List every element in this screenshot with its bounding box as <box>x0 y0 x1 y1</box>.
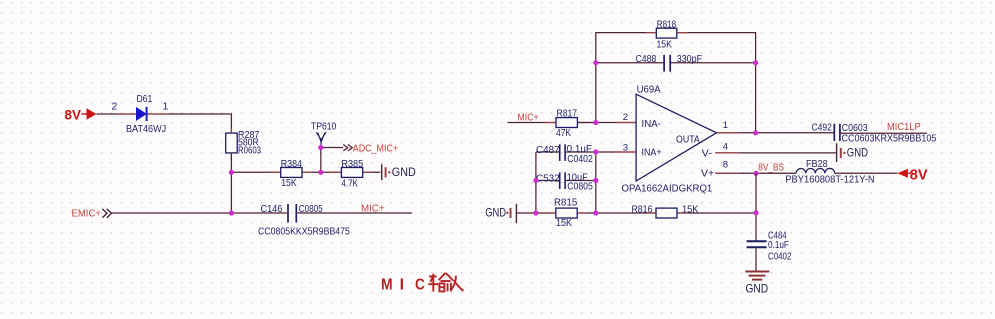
svg-text:ADC_MIC+: ADC_MIC+ <box>353 142 398 154</box>
svg-text:GND: GND <box>847 146 868 160</box>
resistor R818 <box>656 28 677 38</box>
capacitor C492 <box>834 124 840 141</box>
wire right vertical (pin3 to R815 row) <box>595 152 597 213</box>
svg-text:D61: D61 <box>137 93 153 105</box>
svg-text:GND: GND <box>392 165 416 179</box>
wire C532 row <box>536 180 596 182</box>
junction dot (756,133) <box>753 130 758 135</box>
wire left vertical (C487/C532/R815) <box>535 152 537 213</box>
earth ground <box>745 272 769 280</box>
capacitor C532 <box>560 172 565 189</box>
svg-text:MIC+: MIC+ <box>518 111 539 123</box>
junction dot (596,63) <box>593 60 598 65</box>
wire MIC+ to R817 <box>508 122 557 124</box>
wire pin4 row <box>715 152 836 154</box>
wire 8V net <box>97 114 232 133</box>
svg-text:C: C <box>415 276 425 293</box>
svg-text:INA-: INA- <box>642 118 662 130</box>
resistor R384 <box>281 168 302 178</box>
wire pin3 row <box>566 151 636 153</box>
svg-text:INA+: INA+ <box>642 147 662 159</box>
junction dot (756,213) <box>753 210 758 215</box>
svg-text:R384: R384 <box>281 158 302 170</box>
svg-text:U69A: U69A <box>637 84 661 96</box>
wire V+ vertical to C484 <box>755 173 757 240</box>
junction dot (536,213) <box>533 210 538 215</box>
svg-text:R385: R385 <box>341 158 363 170</box>
ferrite bead FB28 <box>796 168 835 173</box>
svg-text:MIC+: MIC+ <box>361 202 385 214</box>
svg-text:15K: 15K <box>657 39 672 51</box>
svg-text:I: I <box>400 276 404 293</box>
junction dot (596,213) <box>593 210 598 215</box>
svg-text:BAT46WJ: BAT46WJ <box>126 123 166 135</box>
svg-text:8V: 8V <box>910 167 928 183</box>
svg-text:C146: C146 <box>261 203 283 215</box>
junction dot (756,173) <box>753 171 758 176</box>
hanzi shu (simplified strokes) <box>428 273 453 292</box>
svg-text:47K: 47K <box>556 127 571 139</box>
wire TP branch <box>321 148 343 173</box>
svg-text:1: 1 <box>723 120 728 131</box>
port chevrons ADC_MIC+ <box>343 145 352 151</box>
wire EMIC row <box>112 212 412 214</box>
resistor R816 pins <box>646 212 688 214</box>
test point TP610 <box>316 132 326 147</box>
svg-text:C0805: C0805 <box>299 203 323 215</box>
svg-text:C488: C488 <box>636 53 657 65</box>
capacitor C484 <box>747 241 767 247</box>
capacitor C487 <box>560 144 565 161</box>
title MIC input <box>381 273 463 293</box>
op-amp U69A <box>636 94 716 181</box>
resistor R816 <box>656 208 677 218</box>
resistor R385 <box>341 168 362 178</box>
port EMIC+ <box>72 208 112 220</box>
diode D61 pin stubs <box>116 113 168 115</box>
svg-text:R0603: R0603 <box>238 144 261 156</box>
svg-text:FB28: FB28 <box>806 158 828 170</box>
svg-text:GND: GND <box>485 206 506 220</box>
svg-text:C532: C532 <box>536 172 560 184</box>
svg-text:CC0603KRX5R9BB105: CC0603KRX5R9BB105 <box>842 132 937 144</box>
wire R287 to EMIC row <box>230 153 232 213</box>
svg-text:15K: 15K <box>281 177 296 189</box>
wire pin1 output row <box>717 132 928 134</box>
svg-text:OPA1662AIDGKRQ1: OPA1662AIDGKRQ1 <box>622 182 713 194</box>
svg-text:M: M <box>381 276 393 293</box>
resistor R384 pins <box>270 171 312 173</box>
svg-text:C487: C487 <box>536 144 560 156</box>
svg-text:OUTA: OUTA <box>676 133 700 145</box>
wire feedback left vertical <box>596 33 756 133</box>
svg-text:15K: 15K <box>556 217 572 229</box>
svg-text:V+: V+ <box>701 167 714 179</box>
hanzi ru <box>450 276 463 292</box>
svg-text:R817: R817 <box>557 108 578 120</box>
svg-text:R815: R815 <box>554 196 577 208</box>
svg-text:4.7K: 4.7K <box>341 178 358 190</box>
power bar GND (left of R815) <box>485 204 516 223</box>
resistor R287 <box>226 133 238 153</box>
junction dot (596,152) <box>593 149 598 154</box>
wire C484 to ground <box>755 247 757 271</box>
wire R384 row <box>231 171 380 173</box>
svg-text:C492: C492 <box>812 121 832 133</box>
svg-text:R816: R816 <box>632 203 653 215</box>
wire R817 to pin2 <box>577 122 636 124</box>
capacitor C488 <box>664 55 670 72</box>
junction dot (231,213) <box>229 210 234 215</box>
junction dot (596,122) <box>593 120 598 125</box>
junction dot (321,147) <box>318 145 323 150</box>
svg-text:C0805: C0805 <box>567 181 593 193</box>
svg-text:PBY160808T-121Y-N: PBY160808T-121Y-N <box>785 173 874 185</box>
svg-text:CC0805KKX5R9BB475: CC0805KKX5R9BB475 <box>258 226 350 238</box>
wire R815 row <box>517 212 756 214</box>
svg-text:MIC1LP: MIC1LP <box>887 121 921 133</box>
resistor R815 pins <box>546 212 588 214</box>
capacitor C146 <box>288 204 296 223</box>
diode D61 <box>136 107 146 121</box>
resistor R815 <box>556 208 577 218</box>
resistor R287 pins <box>230 128 232 160</box>
svg-text:2: 2 <box>112 101 118 113</box>
resistor R817 pins <box>546 122 590 124</box>
svg-text:4: 4 <box>723 141 728 152</box>
junction dot (536,180) <box>533 178 538 183</box>
svg-text:V-: V- <box>702 147 712 159</box>
wire C488 row <box>596 62 756 64</box>
svg-text:C0402: C0402 <box>567 153 593 165</box>
svg-text:330pF: 330pF <box>677 53 702 65</box>
svg-text:15K: 15K <box>682 203 699 215</box>
svg-text:8: 8 <box>723 160 728 171</box>
junction dot (231,172) <box>229 170 234 175</box>
junction dot (596,180) <box>593 178 598 183</box>
junction dot (321,172) <box>318 170 323 175</box>
svg-text:C0402: C0402 <box>768 250 792 262</box>
svg-text:8V: 8V <box>65 108 82 123</box>
svg-text:GND: GND <box>746 282 769 296</box>
resistor R385 pins <box>330 171 372 173</box>
power port 8V (right) <box>897 167 928 183</box>
svg-text:TP610: TP610 <box>311 121 336 133</box>
resistor R818 pins <box>646 32 688 34</box>
svg-text:R818: R818 <box>657 18 676 30</box>
wire pin8 row <box>715 172 897 174</box>
junction dot (756,63) <box>753 60 758 65</box>
power port 8V (left) <box>65 108 97 123</box>
resistor R817 <box>556 118 577 128</box>
svg-text:0.1uF: 0.1uF <box>768 239 789 251</box>
wire C487 left <box>536 151 559 153</box>
svg-text:2: 2 <box>623 112 628 123</box>
power bar GND (pin4) <box>837 143 846 162</box>
svg-text:1: 1 <box>163 101 169 113</box>
svg-text:8V_BS: 8V_BS <box>758 161 784 173</box>
svg-text:EMIC+: EMIC+ <box>72 208 101 220</box>
power bar GND (right of R385) <box>382 164 391 180</box>
